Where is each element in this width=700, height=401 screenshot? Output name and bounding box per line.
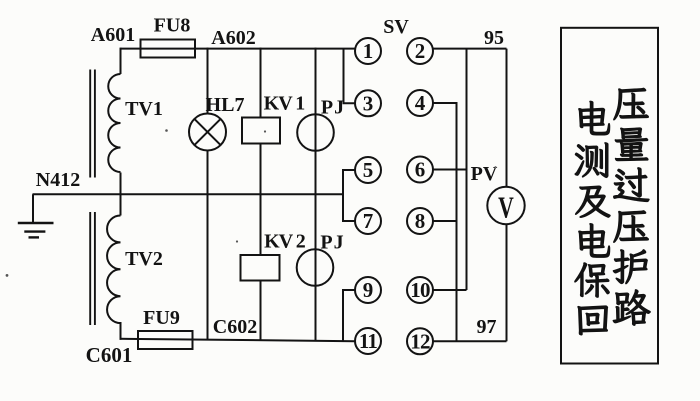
svg-text:8: 8 <box>415 209 426 233</box>
meter PJ upper <box>297 114 334 151</box>
svg-text:7: 7 <box>363 209 374 233</box>
wire TV1 primary top <box>120 48 122 74</box>
svg-text:HL7: HL7 <box>206 94 245 116</box>
svg-text:11: 11 <box>359 329 378 353</box>
wire stub terminal 4 <box>433 102 458 104</box>
wire HL7 top <box>207 48 209 114</box>
svg-text:5: 5 <box>363 158 374 182</box>
fuse FU9 <box>138 331 193 349</box>
terminal 11 <box>355 328 381 354</box>
svg-text:9: 9 <box>363 278 374 302</box>
terminal 1 <box>355 38 381 64</box>
svg-text:97: 97 <box>477 316 497 338</box>
wire ground drop <box>32 194 34 223</box>
svg-text:C602: C602 <box>213 316 257 338</box>
svg-text:A601: A601 <box>91 24 135 46</box>
wire terminal 12 to PV bus <box>433 340 507 342</box>
svg-text:SV: SV <box>383 16 409 38</box>
title char 压 (right col 4) <box>613 211 648 243</box>
title char 保 (left col 5) <box>575 263 610 298</box>
title char 回 (left col 6) <box>578 306 608 335</box>
terminal 9 <box>355 277 381 303</box>
wire N412 bus <box>33 193 344 195</box>
svg-text:PJ: PJ <box>320 232 344 254</box>
svg-text:10: 10 <box>410 278 430 302</box>
wire PV bus upper <box>506 49 508 187</box>
title char 电 (left col 1) <box>579 101 610 135</box>
svg-text:V: V <box>498 189 514 224</box>
wire HL7 bottom <box>207 151 209 341</box>
svg-text:FU9: FU9 <box>143 307 180 329</box>
transformer TV1 core <box>90 70 95 178</box>
terminal 2 <box>407 38 433 64</box>
transformer TV2 winding <box>107 216 120 324</box>
terminal 6 <box>407 157 433 183</box>
wire stub terminal 8 <box>432 220 457 222</box>
lamp HL7 <box>189 114 226 151</box>
svg-text:3: 3 <box>363 91 374 115</box>
svg-text:KV 1: KV 1 <box>264 93 305 115</box>
wire bottom bus C601-C602 <box>120 339 356 341</box>
svg-text:4: 4 <box>415 91 426 115</box>
wire bus B (2-6-10) <box>466 49 468 290</box>
title char 电 (left col 4) <box>579 223 610 257</box>
wire stub terminal 6 <box>432 169 468 171</box>
transformer TV1 winding <box>108 74 120 172</box>
svg-text:KV 2: KV 2 <box>264 231 306 253</box>
wire top bus A601-A602 <box>121 48 356 50</box>
wire TV1 bottom to N412 <box>120 173 122 216</box>
meter PJ lower <box>297 249 334 286</box>
terminal 10 <box>407 277 433 303</box>
relay coil KV1 <box>242 118 280 144</box>
wire bus A (4-8-12) <box>456 103 458 341</box>
svg-text:1: 1 <box>363 39 374 63</box>
svg-text:A602: A602 <box>211 27 255 49</box>
terminal 7 <box>355 208 381 234</box>
title char 测 (left col 2) <box>575 142 608 177</box>
terminal 4 <box>407 90 433 116</box>
terminal 8 <box>407 208 433 234</box>
terminal 12 <box>407 328 433 354</box>
title char 护 (right col 5) <box>613 249 647 283</box>
title char 及 (left col 3) <box>575 186 610 218</box>
title char 过 (right col 3) <box>613 168 649 202</box>
wire terminal 2 to PV bus <box>433 48 507 50</box>
title box frame <box>561 28 658 364</box>
wire PJ column <box>315 48 317 340</box>
svg-text:12: 12 <box>410 329 430 353</box>
wire drop to terminal 3 <box>344 49 356 104</box>
wire PV bus lower <box>506 224 508 341</box>
wire KV1-KV2 <box>260 144 262 256</box>
svg-text:6: 6 <box>415 158 426 182</box>
terminal 3 <box>355 90 381 116</box>
voltmeter PV <box>487 187 524 224</box>
title char 压 (right col 1) <box>613 88 648 120</box>
terminal 5 <box>355 157 381 183</box>
wire KV2 bottom <box>260 281 262 341</box>
svg-text:95: 95 <box>484 27 504 49</box>
svg-text:FU8: FU8 <box>154 15 191 37</box>
wire stub terminal 10 <box>432 289 467 291</box>
svg-text:PV: PV <box>471 163 498 185</box>
title char 路 (right col 6) <box>613 289 651 325</box>
svg-text:TV1: TV1 <box>125 98 163 120</box>
speck marks <box>6 129 497 277</box>
relay coil KV2 <box>241 255 280 281</box>
ground <box>18 223 54 237</box>
svg-text:TV2: TV2 <box>125 248 163 270</box>
svg-text:PJ: PJ <box>321 97 345 119</box>
svg-text:C601: C601 <box>86 343 133 367</box>
svg-text:N412: N412 <box>36 169 80 191</box>
transformer TV2 core <box>90 212 95 325</box>
wire TV2 bottom <box>120 322 122 340</box>
wire bracket terminals 5-7 <box>343 170 356 221</box>
title char 量 (right col 2) <box>615 128 648 161</box>
svg-text:2: 2 <box>415 39 426 63</box>
fuse FU8 <box>141 40 196 58</box>
wire KV1 top <box>260 48 262 118</box>
wire bracket terminals 9-11 <box>343 290 356 341</box>
